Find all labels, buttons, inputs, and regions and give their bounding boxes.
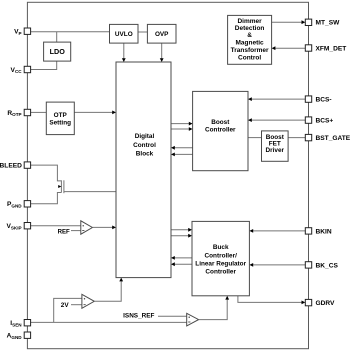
svg-text:Magnetic: Magnetic [236,40,265,47]
svg-text:Block: Block [136,151,154,158]
svg-text:UVLO: UVLO [115,31,133,38]
svg-text:Controller: Controller [205,268,236,275]
svg-text:BLEED: BLEED [0,163,22,170]
svg-text:Controller: Controller [205,127,236,134]
svg-text:Buck: Buck [213,244,229,251]
svg-text:Setting: Setting [49,119,71,126]
svg-text:BKIN: BKIN [316,228,332,235]
svg-text:Driver: Driver [266,147,285,154]
svg-text:OTP: OTP [54,112,68,119]
svg-text:Detection: Detection [235,25,265,32]
svg-text:Transformer: Transformer [231,47,269,54]
svg-text:2V: 2V [61,302,70,309]
svg-text:Digital: Digital [135,133,155,140]
svg-text:BK_CS: BK_CS [316,262,339,269]
svg-text:BCS+: BCS+ [316,118,334,125]
svg-text:Control: Control [133,142,156,149]
svg-text:BST_GATE: BST_GATE [316,135,350,142]
svg-text:REF: REF [58,229,70,236]
svg-text:BCS-: BCS- [316,97,332,104]
svg-text:OVP: OVP [155,31,169,38]
svg-text:Dimmer: Dimmer [237,18,262,25]
svg-text:Boost: Boost [211,119,230,126]
svg-text:Control: Control [238,54,261,61]
svg-text:ISNS_REF: ISNS_REF [123,312,154,319]
svg-text:&: & [247,32,252,39]
svg-text:GDRV: GDRV [316,300,336,307]
svg-text:XFM_DET: XFM_DET [316,45,347,52]
svg-text:LDO: LDO [50,47,66,56]
svg-text:Controller/: Controller/ [205,252,238,259]
svg-text:Linear Regulator: Linear Regulator [195,260,246,267]
svg-text:MT_SW: MT_SW [316,20,341,27]
